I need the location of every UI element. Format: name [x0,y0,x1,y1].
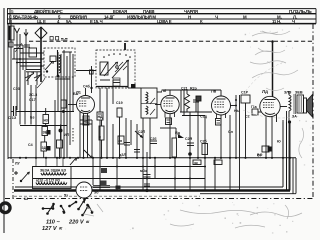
wire V1 left [68,104,77,106]
inner left border double line [8,24,11,159]
bottom horizontal wire 1 [33,166,205,168]
wire mh2 [80,119,92,121]
svg-text:В: В [9,19,12,24]
wire l3 [54,100,56,158]
V3 pin box [216,119,222,126]
wire V4 right [280,106,287,108]
svg-text:С 5ВА-Т.Р.36-4Ь: С 5ВА-Т.Р.36-4Ь [9,14,38,19]
wire V1 bottom2 [87,113,89,158]
T1 feed ticks [36,158,63,167]
svg-text:ДВОЙТЕ БАРС: ДВОЙТЕ БАРС [34,9,64,14]
svg-text:НД: НД [98,115,103,119]
wire drop d3 [204,116,206,191]
svg-text:М: М [243,14,247,19]
IF amp tube V2 [161,88,179,114]
wire V1 right drop2 [99,120,101,158]
heavy frame line B [14,189,290,191]
svg-text:Ч: Ч [292,19,295,24]
svg-text:Лд: Лд [262,89,268,94]
bottom border dash-dot [5,198,313,200]
T2 primary loops [289,95,291,111]
node v236a [235,99,237,101]
dial cord faint curves [243,62,300,118]
wire A4 [25,36,27,70]
IFT1 divider [141,103,157,105]
wire H1 [13,49,15,60]
resistor R15 [202,144,208,155]
wire V1 pin left [79,111,81,158]
node S1 [46,70,48,72]
cap C31 [144,184,150,186]
wire mid drop2 [112,80,114,104]
corner stamp blob [0,203,10,213]
tone cap box [262,146,272,152]
header row3 text [9,19,295,24]
resistor stack R12 [41,142,47,151]
svg-text:ЦЗВА Е: ЦЗВА Е [157,19,172,24]
T2 secondary box [297,95,304,113]
svg-text:ЛУ: ЛУ [15,162,21,166]
node n3 [40,65,42,67]
svg-text:С1Р: С1Р [241,91,249,95]
header row2 text [9,14,297,19]
wire O3 [100,79,110,81]
wire V4 bottom2 [271,117,273,158]
svg-text:Лв: Лв [211,89,217,94]
bottom crossing dots [116,166,206,180]
wire IFT1 top link [128,87,141,89]
wire T2 down1 [286,111,288,191]
heavy frame line C [200,193,296,195]
coupling capacitor C2 [24,45,30,47]
wire V3 right1 [231,105,237,107]
svg-text:С21: С21 [181,87,188,91]
wire H1c [14,44,23,46]
resistor R8 zigzag [185,94,190,112]
header table frame [7,9,316,24]
T2 secondary hatch [299,96,301,112]
svg-text:110 ~: 110 ~ [46,220,60,226]
dial arc [37,78,45,88]
V3 anode [217,98,226,100]
svg-text:220 V ∝: 220 V ∝ [68,220,90,226]
wire drop d2 [197,102,199,158]
wire T0 [26,71,41,73]
wire mid h y128 [160,127,176,129]
svg-text:ИЗВЛЫЛЫЯ М: ИЗВЛЫЛЫЯ М [127,14,156,19]
trimmer mark m3 [61,39,68,41]
electrolytic C14 [59,125,63,141]
svg-text:С 1З: С 1З [8,116,17,120]
wire A3 [22,45,24,70]
wire cluster v2 [183,90,185,116]
svg-text:127 V ∝: 127 V ∝ [42,226,63,232]
box C1R [196,96,201,101]
coil box top link [62,51,72,53]
resistor R7 [117,108,122,117]
wire mid h3 [182,115,205,117]
contact ticks [115,62,127,72]
wire stack v2 [44,136,46,143]
capacitor C22 [193,96,199,112]
right border dash-dot [312,24,314,199]
fuse mark [14,171,18,175]
svg-text:ЗС-З: ЗС-З [29,93,38,97]
wire R7 drop [119,117,121,158]
wire stack v [45,124,47,127]
svg-text:ИЛ: ИЛ [64,133,70,137]
wire bundle right of switch [58,50,73,158]
wire R16 link [258,111,261,113]
wire H2c [20,65,44,67]
wiper arm 1 [104,62,118,76]
V1 cathode [81,110,90,112]
box R13 [118,136,124,144]
junction blob T2 [288,120,291,123]
V1 grids [79,101,87,106]
svg-text:С2: С2 [245,115,250,119]
frame vertical b [286,122,288,191]
svg-text:С1б: С1б [13,87,21,91]
box rect r1 [101,168,107,173]
junction blob bottom [145,189,148,192]
wire H2 [12,58,44,60]
screen resistor R4 [97,112,103,120]
wire V4 bottom [265,116,267,158]
svg-text:С2д: С2д [200,115,208,119]
svg-text:11 Н.: 11 Н. [272,19,281,24]
node S2 [116,66,119,69]
svg-text:С2Л: С2Л [138,130,146,134]
wire V2 left [155,104,161,106]
svg-text:С2б: С2б [200,140,208,144]
volume resistor R14 [172,138,177,157]
wire mid drop1 [106,88,108,158]
wire V1 bottom1 [83,113,85,158]
wire A2 [19,34,21,70]
V2 pin ticks [165,112,175,118]
V2 cathode [166,110,175,112]
wire H2d [26,69,41,71]
rectifier tube V5 [64,182,99,198]
coil box L1 [29,48,37,57]
svg-text:НВ: НВ [84,120,89,124]
resistor small dark r1 [47,130,51,135]
wire IFT1 down1 [142,118,144,191]
tuning gang section [13,70,45,158]
wire rect h [93,186,110,188]
cathode resistor R3 [83,116,89,125]
wire O1 [127,60,129,88]
wire L2a [57,50,59,77]
output tube V4 [260,89,280,117]
svg-text:(В): (В) [194,161,198,165]
svg-text:ВВРЛИЯ: ВВРЛИЯ [70,14,87,19]
node n1 [19,58,21,60]
fuse box on frame [116,186,121,190]
svg-text:Лб: Лб [161,88,167,93]
svg-text:ЧАРЛЯ: ЧАРЛЯ [184,9,198,14]
frame vertical c [289,122,291,191]
junction blob mid [188,152,192,156]
bottom dash row 2 [14,195,200,197]
sheet left border line [3,8,5,233]
V4 grids [263,103,274,108]
svg-text:Сл: Сл [228,130,234,134]
loop antenna diamond [35,27,47,82]
earth arrow symbol [24,29,28,36]
wire V2 bottom [169,114,171,158]
wire R8 top [186,90,188,94]
grid cap tick box [90,70,94,74]
wire V1 top [85,88,87,96]
IF transformer 1 box [141,88,157,118]
power transformer T1 [33,158,72,189]
node l5 [62,110,65,113]
grid resistor R16 [251,105,258,115]
output transformer T2 [284,91,304,115]
wire T5 [35,85,37,158]
contact dots [103,53,131,58]
small box B2 [214,160,222,165]
wire right v3 [229,115,231,191]
wire IFT1 right [157,91,162,93]
switch contact box [50,56,56,62]
wire R9 top [101,120,103,126]
wire T3 [24,70,26,125]
wire IFT1 down2 [149,118,151,158]
svg-text:С4б: С4б [83,85,91,89]
terminal box 2 [9,42,13,47]
svg-text:ЗЛЗ: ЗЛЗ [284,91,292,95]
wire V3 bottom [220,115,222,158]
coupling box C1P [241,91,250,104]
svg-text:Ю: Ю [277,140,281,144]
svg-text:С17: С17 [29,98,36,102]
V3 grids [215,102,225,107]
node v236b [235,105,237,107]
component box C15 [57,140,63,148]
scan speckle noise [65,28,311,234]
svg-text:БА: БА [73,92,79,96]
V1 anode [81,97,90,99]
wire stack top [45,108,47,115]
small box B1 [193,160,201,165]
wire V4 plate drop [272,42,274,97]
padder capacitor C10 [113,78,120,86]
wire cluster v1 [180,90,182,112]
svg-text:Щ. Е: Щ. Е [37,19,46,24]
V3 pin ticks [217,113,226,119]
horizontal y111b [16,111,74,113]
wire T2 top [288,91,290,95]
wire mid v1 [175,128,177,138]
cap C2b [150,137,157,144]
node S2a [20,180,22,182]
oscillator coil L2 loops [59,55,61,73]
antenna Y symbol [15,28,20,47]
wire R9 bot [101,140,103,158]
bottom drops [117,152,215,191]
resistor R9 [98,126,104,140]
wire right v1 [235,95,237,158]
power switch S2 [21,172,29,181]
svg-text:5А.: 5А. [66,19,72,24]
svg-text:НЬ: НЬ [234,109,239,113]
IFT1 primary loops [146,92,148,103]
node plate top [271,40,274,43]
wire mid h2 [180,111,212,113]
svg-text:R2о: R2о [190,87,198,91]
wire l1 [59,148,61,158]
node n4 [16,62,18,64]
cap C2x plates [134,150,140,153]
wire H2b [17,62,41,64]
svg-text:НЗ: НЗ [44,119,48,123]
loudspeaker [304,95,313,118]
svg-text:зв: зв [119,139,123,143]
svg-text:14 ДГ: 14 ДГ [104,14,115,19]
detector tube V3 [211,89,231,116]
svg-text:ЗЕВ: ЗЕВ [295,91,303,95]
variable capacitor C4 [34,72,42,85]
wire right v2 [239,95,241,191]
svg-text:Г1а: Г1а [251,105,257,109]
V4 anode [265,99,276,101]
bus junction dots [19,157,291,159]
wire T2 down4 [292,158,294,194]
header row1 text [11,9,312,14]
resistor small dark r2 [47,146,51,151]
wire T1 [19,70,21,125]
oscillator band-switch dashed box [76,43,136,89]
svg-text:ЗА: ЗА [292,115,297,119]
V3 cathode [217,111,226,113]
faint pencil smudges [84,31,304,228]
IFT1 secondary loops [146,106,148,114]
svg-text:дЗЛ: дЗЛ [119,153,126,157]
wire T2 down3 [282,120,284,187]
voltage selector left [42,203,66,232]
frame vertical a [282,122,284,187]
svg-text:5з: 5з [64,194,68,198]
main ground bus [8,157,296,159]
voltage selector right [68,198,93,225]
svg-text:Зб: Зб [94,191,99,195]
svg-text:мОк: мОк [140,169,147,173]
svg-text:С2б: С2б [150,137,156,141]
dial pointer tick [124,43,126,50]
V4 cathode [265,113,275,115]
wire T4 [30,85,32,125]
wire T2 [16,70,18,110]
svg-text:С2Я: С2Я [185,137,193,141]
svg-text:К: К [200,19,203,24]
V2 pin box [166,118,172,125]
capacitor C13 [8,106,17,120]
AVC diode arrow [135,131,142,137]
V2 grids [164,101,173,106]
svg-text:ПАЕВ: ПАЕВ [143,9,154,14]
resistor stack R11 [42,127,48,136]
wire mid h [96,86,128,88]
variable capacitor C3 [25,72,34,85]
horizontal y111 [11,111,14,113]
svg-text:ЗЕЗА ЗЦВА ЕЗ: ЗЕЗА ЗЦВА ЕЗ [40,169,67,173]
wire T2 down5 [295,158,297,194]
tone arrow [70,158,77,165]
mixer tube V1 [76,90,95,114]
wire H1b [20,52,44,54]
V2 anode [166,97,175,99]
T1 winding 1 [41,173,66,175]
cap C30 [140,169,151,177]
cap C24 [187,143,194,146]
cap C2v plates [124,143,130,146]
wiper arm 2 [112,60,129,78]
wire L2 bottom [55,78,70,80]
switch wafer S1b [100,62,108,75]
svg-text:Ч: Ч [215,14,218,19]
trimmer mark m1 [50,37,53,41]
wire T2 down2 [288,111,290,191]
svg-text:ЕОКАЯ: ЕОКАЯ [113,9,127,14]
blob contact [131,84,136,89]
wire rect2 [99,158,101,191]
volume pot arrow [84,150,93,158]
wire V2 h top [162,89,221,91]
wire stack v3 [43,151,45,158]
left mid: long wire y125 [20,125,67,127]
IFT1 trimmer arrows [150,98,155,115]
svg-text:Ш: Ш [24,197,28,201]
mid labels row [175,115,297,144]
band switch dashed box left [44,48,75,77]
bottom horizontal wire 2 [33,178,205,180]
wire mh1 [80,123,92,125]
switch S1a wiper [45,61,54,70]
box rect r2 [101,181,107,186]
detector diode D1 [178,134,184,138]
svg-text:БО: БО [257,153,263,157]
left mid drops [92,118,137,158]
wire V3 top [220,90,222,96]
wire V1 right drop [99,88,101,112]
wire v245 [245,103,247,158]
T1 winding 2 [36,183,67,185]
svg-text:5: 5 [11,9,14,14]
wire V2 top [169,90,171,95]
antenna terminal box [9,26,14,40]
trimmer mark m2 [56,37,59,41]
node n2 [25,62,27,64]
wire O2 [76,70,96,72]
wire rect1 [92,158,94,185]
svg-text:Н: Н [188,14,191,19]
chassis dash-dot left leg [12,159,14,198]
svg-text:С4: С4 [28,143,33,147]
T2 core [294,94,296,114]
chassis dashed line top [29,40,313,42]
wire A1 [16,47,18,70]
wire drop d1 [189,112,191,191]
node L2base [57,75,60,78]
screen bypass box [61,100,66,108]
svg-text:а110 ~0 127 ИО: а110 ~0 127 ИО [36,179,61,183]
resistor stack R10 [43,115,49,124]
svg-text:ЗД: ЗД [42,146,47,150]
wire grid top [91,66,93,93]
